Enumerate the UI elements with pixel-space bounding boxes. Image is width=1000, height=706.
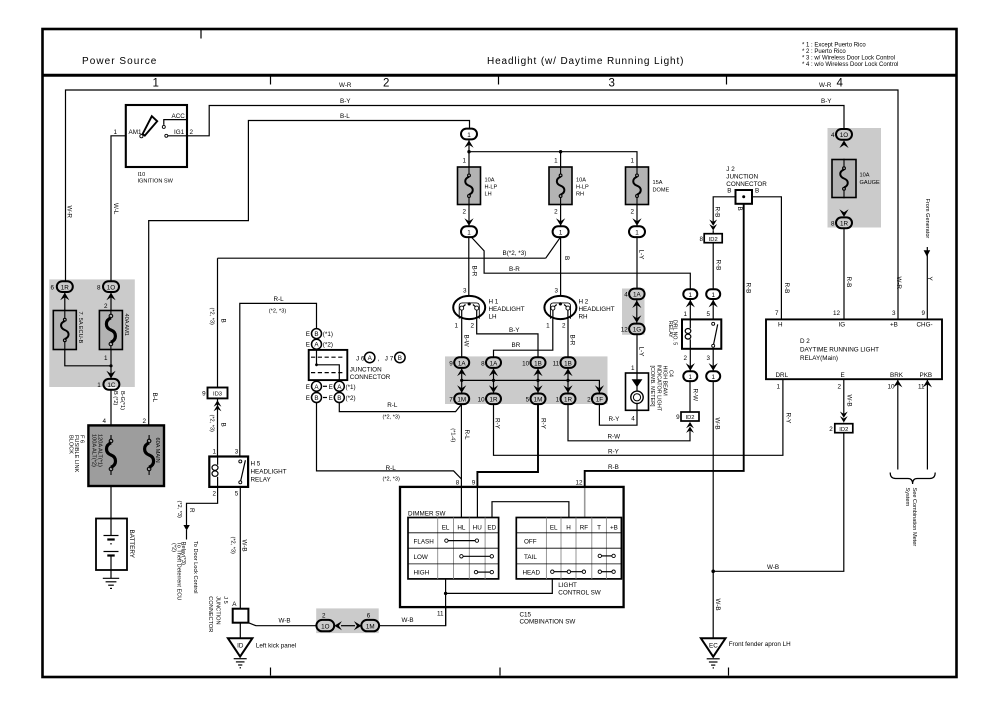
svg-text:60A MAIN: 60A MAIN (154, 438, 160, 463)
svg-text:INDICATOR LIGHT: INDICATOR LIGHT (655, 365, 661, 412)
wire R-B J2 to pin12 (585, 204, 744, 487)
ignition AM1 contact (140, 135, 143, 138)
svg-text:5: 5 (235, 490, 239, 497)
svg-text:R-L: R-L (387, 402, 398, 409)
svg-text:2: 2 (630, 209, 634, 216)
ignition switch I10 (126, 105, 187, 167)
svg-text:1B: 1B (564, 360, 572, 367)
wire B-R to DRL relay (471, 237, 691, 290)
svg-text:E: E (306, 342, 310, 349)
svg-text:2: 2 (322, 612, 326, 619)
wire W-B DRL oval to EC ground (712, 381, 714, 638)
wire L-Y 1G to C4 (636, 334, 638, 373)
svg-text:1M: 1M (457, 397, 466, 404)
wire B-L from 60A MAIN to headlamp fuses (149, 121, 470, 426)
svg-text:12: 12 (621, 327, 629, 334)
svg-text:(*1-4): (*1-4) (449, 428, 455, 442)
DRL relay bottom ovals (686, 363, 695, 371)
svg-text:HIGH: HIGH (414, 570, 430, 577)
svg-text:1: 1 (630, 157, 634, 164)
svg-text:1M: 1M (534, 397, 543, 404)
svg-text:4: 4 (102, 418, 106, 425)
arrow into LH top oval (464, 140, 473, 148)
arrow up to 1A-4 (632, 300, 641, 308)
svg-text:15A: 15A (653, 180, 663, 186)
svg-text:1M: 1M (366, 623, 375, 630)
svg-text:3: 3 (706, 355, 710, 362)
svg-text:9: 9 (676, 414, 680, 421)
svg-text:B: B (755, 188, 759, 195)
svg-text:1: 1 (467, 132, 471, 139)
svg-text:W-R: W-R (895, 277, 902, 290)
svg-text:1: 1 (454, 323, 458, 330)
junction connector J5 (233, 609, 249, 623)
wire DRL relay pin2 to oval (689, 349, 691, 372)
ground ID left kick panel (228, 638, 253, 656)
svg-text:9: 9 (202, 391, 206, 398)
svg-text:B: B (314, 331, 318, 338)
svg-text:BR: BR (512, 342, 521, 349)
fuse 7.5A ECU-B (53, 311, 76, 350)
svg-text:COMBINATION SW: COMBINATION SW (520, 619, 576, 626)
arrow into 1R (60, 293, 69, 301)
svg-text:10: 10 (522, 360, 530, 367)
connector oval 1 LH fuse bottom (461, 226, 477, 237)
header title divider tick (200, 30, 202, 39)
svg-text:LH: LH (489, 314, 498, 321)
svg-text:DRL: DRL (776, 372, 789, 379)
svg-text:Left kick panel: Left kick panel (256, 643, 296, 650)
gray strip 1A-1G (622, 289, 645, 335)
svg-text:2: 2 (462, 209, 466, 216)
junction box ID2-9 (681, 412, 699, 421)
svg-text:1: 1 (683, 311, 687, 318)
connector row2 oval 1M-5 (531, 394, 546, 405)
svg-text:B(*2, *3): B(*2, *3) (503, 250, 527, 257)
headlight H1 (453, 296, 485, 319)
svg-text:IGNITION SW: IGNITION SW (138, 179, 174, 185)
ignition ACC contact (162, 125, 165, 128)
svg-text:1: 1 (104, 355, 108, 362)
svg-text:10A: 10A (576, 178, 586, 184)
svg-text:(*2, *3): (*2, *3) (383, 477, 401, 483)
wire C4 pin4 to 1F (R-Y) (599, 404, 637, 425)
connector row1 oval 1A-8 (486, 357, 501, 368)
svg-text:ACC: ACC (172, 113, 186, 120)
svg-text:L-Y: L-Y (637, 250, 644, 261)
svg-text:B-W: B-W (463, 335, 470, 347)
connector row2 oval 1R-10 (486, 394, 501, 405)
svg-text:I10: I10 (138, 172, 146, 178)
svg-text:R-B: R-B (608, 464, 619, 471)
svg-text:R-W: R-W (691, 389, 698, 402)
connector oval 1M bottom (361, 620, 379, 631)
junction connector J2 (736, 190, 753, 204)
svg-text:H 5: H 5 (251, 461, 261, 468)
wire LH fuse to oval (468, 205, 470, 227)
svg-text:1: 1 (113, 129, 117, 136)
svg-text:3: 3 (463, 288, 467, 295)
connector row1 oval 1A-9 (454, 357, 469, 368)
svg-text:H: H (566, 524, 571, 531)
connector row1 oval 1B-11 (561, 357, 576, 368)
svg-text:[COMB. METER]: [COMB. METER] (649, 366, 655, 408)
svg-text:JUNCTION: JUNCTION (726, 174, 758, 181)
svg-text:1A: 1A (490, 360, 499, 367)
svg-text:E: E (841, 372, 845, 379)
wire B to ID3 and relay coil (217, 258, 219, 456)
wire B-R LH fuse to H1 (468, 236, 470, 296)
svg-text:(*2, *3): (*2, *3) (229, 537, 235, 555)
svg-text:H-LP: H-LP (485, 185, 498, 191)
svg-text:R-Y: R-Y (609, 416, 621, 423)
wire left fuse 5O drop (110, 292, 112, 311)
connector row2 oval 1M-7 (454, 394, 469, 405)
wire R-L J6 lower to pin8 (317, 403, 462, 479)
wire B(*2,*3) bus (218, 238, 561, 258)
svg-text:DAYTIME RUNNING LIGHT: DAYTIME RUNNING LIGHT (800, 347, 879, 354)
svg-text:2: 2 (554, 209, 558, 216)
svg-text:B-Y: B-Y (340, 98, 351, 105)
svg-text:4: 4 (631, 416, 635, 423)
junction box ID3 (208, 388, 228, 399)
svg-text:5: 5 (526, 397, 530, 404)
relay H5 headlight (209, 457, 248, 487)
svg-text:1A: 1A (458, 360, 467, 367)
indicator C4 high beam (626, 373, 649, 410)
svg-text:4: 4 (837, 78, 844, 90)
chevrons into ID2-2 (840, 412, 848, 423)
svg-text:1: 1 (711, 374, 715, 381)
combination switch C15 box (400, 487, 624, 607)
svg-text:L-Y: L-Y (638, 347, 645, 358)
svg-text:IG1: IG1 (174, 129, 185, 136)
svg-text:1R: 1R (61, 284, 70, 291)
svg-text:2: 2 (587, 397, 591, 404)
svg-text:W-R: W-R (819, 82, 832, 89)
wire DRL relay pin1 oval to coil (689, 299, 691, 319)
arrow to door lock (183, 525, 189, 531)
svg-text:ED: ED (487, 524, 496, 531)
svg-text:1: 1 (546, 323, 550, 330)
svg-text:RELAY: RELAY (251, 477, 272, 484)
wire EL bus inside C15 (446, 579, 553, 626)
connector oval 1 LH fuse top (461, 129, 477, 140)
svg-text:1R: 1R (564, 397, 573, 404)
svg-text:B: B (727, 188, 731, 195)
svg-text:HL: HL (457, 524, 466, 531)
connector oval 1G-12 (629, 324, 645, 335)
svg-text:1: 1 (711, 292, 715, 299)
connector oval 1A-4 (629, 289, 645, 300)
svg-text:2: 2 (383, 78, 389, 90)
wire R-L J6 to 1M7 (339, 403, 461, 412)
svg-text:CONNECTOR: CONNECTOR (726, 181, 767, 188)
wire J2 right to D2 H (752, 197, 781, 320)
svg-text:W-B: W-B (714, 418, 721, 430)
svg-text:7. 5A ECU-B: 7. 5A ECU-B (77, 312, 83, 344)
connector oval 1O gauge top (836, 129, 852, 140)
svg-text:B: B (219, 423, 226, 427)
fuse 15A DOME (626, 167, 649, 205)
arrows row1 up (457, 369, 466, 377)
svg-text:* 1 : Except Puerto Rico: * 1 : Except Puerto Rico (802, 43, 866, 49)
svg-text:BATTERY: BATTERY (128, 530, 135, 559)
ignition lever (143, 116, 158, 135)
svg-text:B-Y: B-Y (821, 98, 832, 105)
svg-text:3: 3 (554, 288, 558, 295)
svg-text:1: 1 (462, 157, 466, 164)
gray strip 1O-1M bottom (316, 608, 379, 633)
svg-text:2: 2 (190, 129, 194, 136)
svg-text:BLOCK: BLOCK (68, 435, 74, 454)
svg-text:B-R: B-R (568, 335, 575, 346)
wire DOME fuse to oval (636, 205, 638, 227)
junction dot block (109, 479, 112, 482)
svg-text:CONNECTOR: CONNECTOR (207, 596, 213, 632)
svg-text:B-R: B-R (470, 266, 477, 277)
svg-text:LIGHT: LIGHT (558, 582, 577, 589)
svg-text:B (*2): B (*2) (112, 391, 118, 405)
wire DRL relay pin3 to oval (712, 349, 714, 372)
wire connector bus y380 (462, 368, 600, 394)
svg-text:R-B: R-B (744, 283, 751, 294)
wire pin9 inside C15 (476, 487, 478, 518)
wire relay pin2 to door lock arrow (187, 487, 218, 540)
svg-text:From Generator: From Generator (924, 199, 930, 239)
chevrons into ID3 (214, 400, 222, 411)
svg-text:ID2: ID2 (709, 237, 718, 243)
svg-text:R: R (188, 508, 195, 513)
svg-text:E: E (329, 395, 333, 402)
fuse 10A H-LP LH (458, 167, 481, 205)
svg-text:Headlight (w/ Daytime Running: Headlight (w/ Daytime Running Light) (487, 56, 684, 67)
svg-text:1: 1 (631, 365, 635, 372)
wire W-L from ignition AM1 (111, 136, 126, 281)
svg-text:2: 2 (471, 323, 475, 330)
arrow into 1C (106, 371, 115, 379)
svg-text:W-B: W-B (714, 599, 721, 611)
arrow from generator (924, 250, 931, 256)
svg-text:(*2): (*2) (171, 543, 177, 552)
fusible link 40A AM1 (99, 311, 122, 350)
svg-text:B: B (219, 319, 226, 323)
brace see combination meter (890, 473, 935, 485)
svg-text:J 7: J 7 (385, 356, 394, 363)
svg-text:1: 1 (212, 449, 216, 456)
svg-text:(*1): (*1) (346, 384, 356, 391)
svg-text:(*2): (*2) (323, 342, 333, 349)
connector row2 oval 1R-1 (561, 394, 576, 405)
svg-text:1: 1 (97, 382, 101, 389)
headlight H2 (544, 296, 576, 319)
wire ED to H link inside C15 (492, 502, 569, 518)
svg-text:1B: 1B (534, 360, 542, 367)
wire W-B J5 branch to 1O (248, 623, 316, 626)
svg-text:J 2: J 2 (726, 166, 735, 173)
svg-text:8: 8 (481, 360, 485, 367)
wire DRL relay pin5 oval to switch (712, 299, 714, 319)
svg-text:W-B: W-B (846, 395, 853, 407)
svg-text:(*2, *3): (*2, *3) (208, 308, 214, 326)
svg-text:11: 11 (918, 383, 925, 390)
svg-text:2: 2 (683, 355, 687, 362)
wire R-L 1M7 to pin8 (460, 404, 462, 487)
svg-text:TAIL: TAIL (524, 554, 537, 561)
connector oval 1R gauge bottom (836, 217, 852, 228)
svg-text:10A: 10A (485, 178, 495, 184)
svg-text:R-B: R-B (715, 260, 722, 271)
svg-text:CHG-: CHG- (917, 321, 933, 328)
wire W-B 1M to C15 pin11 (379, 607, 446, 626)
dimmer switch table (408, 518, 499, 579)
svg-text:EL: EL (550, 524, 558, 531)
svg-text:CONTROL SW: CONTROL SW (558, 589, 601, 596)
svg-text:(*2): (*2) (346, 395, 356, 402)
svg-text:* 2 : Puerto Rico: * 2 : Puerto Rico (802, 49, 846, 55)
ground battery (103, 578, 119, 588)
svg-text:4: 4 (831, 132, 835, 139)
svg-text:RH: RH (576, 192, 584, 198)
svg-text:E: E (306, 384, 310, 391)
wire J2 left to ID2-8 (713, 197, 735, 234)
svg-text:J 6: J 6 (356, 356, 365, 363)
svg-text:R-L: R-L (386, 465, 397, 472)
svg-text:DIMMER SW: DIMMER SW (408, 510, 445, 517)
gray panel gauge fuse (828, 128, 882, 228)
junction dot fuse bus (467, 150, 470, 153)
svg-text:(*2, *3): (*2, *3) (269, 308, 287, 314)
svg-text:R-Y: R-Y (784, 413, 791, 425)
wire between 1A and 1G (636, 299, 638, 323)
svg-text:(*2, *3): (*2, *3) (176, 501, 182, 519)
arrow into DOME bottom oval (632, 218, 641, 226)
svg-text:D 2: D 2 (800, 338, 810, 345)
section ticks top (270, 77, 272, 85)
svg-text:9: 9 (472, 479, 476, 486)
wire pin12 inside C15 (584, 487, 586, 518)
svg-text:1: 1 (689, 374, 693, 381)
junction connector J6/J7 (309, 329, 348, 403)
svg-text:H-LP: H-LP (576, 185, 589, 191)
svg-text:11: 11 (553, 360, 560, 367)
svg-text:EL: EL (442, 524, 450, 531)
wire fuse feed bus y152 (469, 139, 637, 167)
svg-text:W-R: W-R (66, 206, 73, 219)
wire BRK stub (897, 379, 899, 469)
svg-text:J 5: J 5 (222, 596, 228, 603)
ignition IG1 contact (165, 134, 168, 137)
svg-text:,: , (378, 356, 380, 363)
connector row2 oval 1F-2 (592, 394, 607, 405)
svg-text:EC: EC (709, 643, 718, 650)
svg-text:12: 12 (575, 479, 583, 486)
svg-text:40A AM1: 40A AM1 (123, 314, 129, 336)
svg-text:System: System (904, 488, 910, 507)
svg-text:RH: RH (579, 314, 589, 321)
svg-text:R-B: R-B (714, 207, 721, 218)
svg-text:1C: 1C (107, 382, 116, 389)
svg-text:2: 2 (829, 426, 833, 433)
svg-text:E: E (329, 384, 333, 391)
ground EC front fender (701, 638, 726, 656)
wire BR H2 pin1 to 1A8 (494, 319, 553, 358)
svg-text:DOME: DOME (653, 188, 670, 194)
wire pin8 inside C15 (460, 487, 462, 518)
svg-text:W-B: W-B (279, 618, 291, 625)
svg-text:1: 1 (554, 157, 558, 164)
svg-text:W-R: W-R (339, 82, 352, 89)
svg-text:7: 7 (775, 310, 779, 317)
svg-text:R-L: R-L (463, 430, 470, 441)
wire block links top stubs (111, 425, 149, 441)
battery (96, 519, 127, 571)
svg-text:HEAD: HEAD (523, 570, 541, 577)
svg-text:B-G(*1): B-G(*1) (119, 391, 125, 410)
svg-text:JUNCTION: JUNCTION (350, 367, 382, 374)
arrow PKB up (923, 380, 932, 388)
svg-text:8: 8 (699, 236, 703, 243)
wire R-B gauge 1R to D2 IG (843, 228, 845, 319)
svg-text:1: 1 (635, 230, 639, 237)
svg-text:1: 1 (559, 230, 563, 237)
svg-text:9: 9 (449, 360, 453, 367)
wire B-Y from ignition IG1 to gauge fuse (187, 106, 844, 136)
svg-text:10A: 10A (860, 173, 870, 179)
svg-text:GAUGE: GAUGE (860, 180, 880, 186)
chevrons into ID2-8 (709, 220, 717, 231)
svg-text:1: 1 (153, 78, 159, 90)
wire B-R H2 pin2 to 1B11 (567, 319, 569, 358)
wire B RH fuse to H2 (560, 236, 562, 296)
section ticks bottom (270, 668, 272, 676)
connector row1 oval 1B-10 (531, 357, 546, 368)
arrow into 1O gauge (839, 140, 848, 148)
svg-text:2: 2 (104, 303, 108, 310)
svg-text:1O: 1O (107, 284, 116, 291)
junction box ID2-2 (835, 424, 853, 433)
junction box ID2-8 (704, 234, 722, 243)
svg-text:HU: HU (473, 524, 483, 531)
svg-text:HEADLIGHT: HEADLIGHT (489, 306, 525, 313)
wire AM1 bottom to 1C (110, 350, 112, 379)
wire 1C to fusible link block (110, 390, 112, 426)
svg-text:11: 11 (437, 610, 444, 617)
svg-text:1: 1 (467, 230, 471, 237)
svg-text:H: H (778, 321, 783, 328)
svg-text:(*1): (*1) (323, 331, 333, 338)
junction dot fuse bus RH (559, 150, 562, 153)
svg-text:OFF: OFF (524, 538, 537, 545)
arrow into 1O (106, 293, 115, 301)
fusible link 120A ALT (107, 435, 116, 475)
junction dot W-B (711, 570, 715, 574)
svg-text:C15: C15 (520, 612, 532, 619)
svg-text:B-R: B-R (509, 266, 520, 273)
svg-text:H 2: H 2 (579, 299, 589, 306)
svg-text:To Door Lock Control: To Door Lock Control (192, 541, 198, 594)
arrow into LH bottom oval (464, 218, 473, 226)
svg-text:9: 9 (921, 310, 925, 317)
svg-text:6: 6 (367, 612, 371, 619)
connector oval 1 DOME fuse bottom (629, 226, 645, 237)
svg-text:2: 2 (142, 418, 146, 425)
light control switch table (516, 518, 621, 579)
chevrons into ID2-9 (686, 422, 694, 433)
arrow into 1M (354, 621, 362, 630)
svg-text:R-W: R-W (608, 434, 621, 441)
svg-text:E: E (306, 331, 310, 338)
